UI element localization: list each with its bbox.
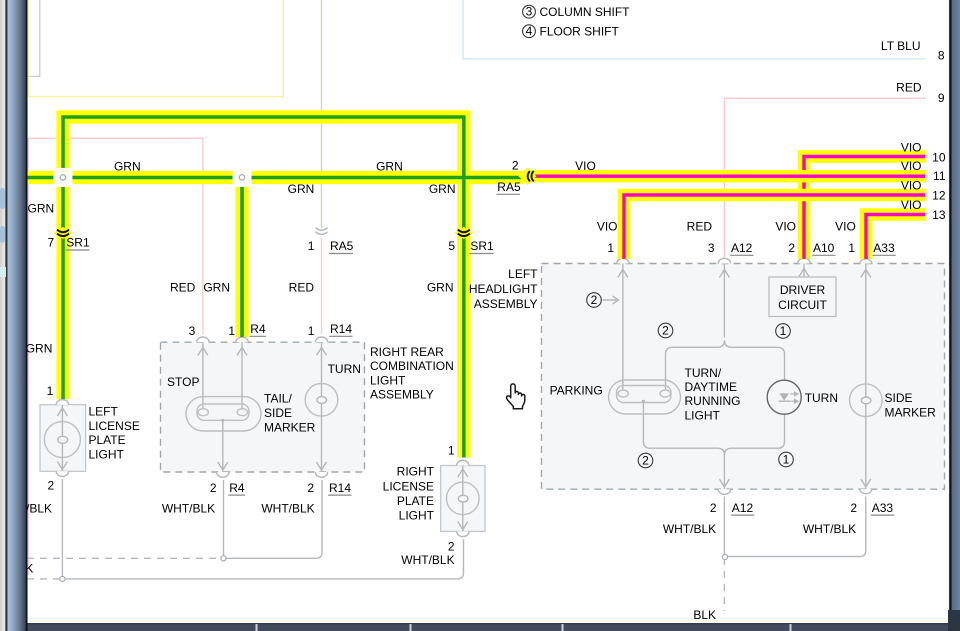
svg-text:2: 2: [210, 481, 217, 495]
pin bump headlight A33-1: [860, 259, 872, 264]
underline RA5 mid: [329, 253, 353, 255]
svg-text:A12: A12: [731, 241, 753, 255]
green wire GRN loop: [63, 117, 464, 458]
svg-text:TURN/: TURN/: [685, 366, 722, 380]
junction node circle 1: [60, 175, 65, 180]
svg-text:2: 2: [662, 323, 669, 337]
pin bump R4-1: [236, 337, 248, 342]
circled 2 bracket top left: [658, 323, 673, 338]
svg-text:GRN: GRN: [28, 201, 55, 215]
dashed box RIGHT REAR COMBINATION LIGHT ASSEMBLY: [161, 342, 365, 472]
ground junction node R4: [221, 556, 226, 561]
underline R4 top: [250, 335, 267, 337]
tail bulb left contact: [198, 409, 208, 416]
left license filament: [61, 422, 63, 457]
wire BLK junction to R14 pin2 lead: [224, 480, 323, 558]
svg-text:HEADLIGHT: HEADLIGHT: [469, 282, 538, 296]
wire parking bulb bottom: [642, 402, 644, 442]
status bar divider 1: [256, 624, 258, 631]
faint gray box top-left: [27, 0, 40, 76]
svg-text:GRN: GRN: [288, 182, 315, 196]
parking bulb right contact: [660, 390, 670, 397]
wire headlight pin2 A10 to driver circuit: [803, 264, 805, 278]
wire right license internal top: [462, 466, 464, 484]
wire headlight pin1 to parking bulb: [622, 264, 624, 391]
box RIGHT LICENSE PLATE LIGHT: [441, 466, 485, 532]
svg-text:WHT/BLK: WHT/BLK: [162, 502, 215, 516]
svg-text:3: 3: [189, 324, 196, 338]
svg-text:WHT/BLK: WHT/BLK: [401, 553, 454, 567]
svg-text:SR1: SR1: [66, 236, 90, 250]
svg-text:1: 1: [47, 384, 54, 398]
wire turn LED bottom: [784, 414, 786, 442]
connector SR1 pin7 highlight diamond: [54, 227, 73, 239]
svg-text:VIO: VIO: [901, 141, 922, 155]
ground junction node left license: [60, 576, 65, 581]
svg-text:LEFT: LEFT: [89, 405, 119, 419]
connector SR1 pin7: [57, 230, 69, 237]
arrow up R4 pin3: [198, 347, 208, 355]
wire BLK ground run left license to right license: [62, 479, 463, 579]
svg-text:A33: A33: [872, 501, 894, 515]
status bar divider 4: [790, 624, 792, 631]
left sidebar blue tab 1: [0, 188, 5, 209]
svg-text:RUNNING: RUNNING: [685, 394, 741, 408]
wire right license internal bottom: [462, 514, 464, 531]
turn rear bulb filament: [321, 384, 323, 416]
svg-text:LIGHT: LIGHT: [370, 373, 406, 387]
wire headlight pin3 A12 into box: [723, 264, 725, 338]
underline R4 bottom: [228, 494, 245, 496]
parking bulb inner element: [617, 386, 672, 403]
lamp LEFT LICENSE bulb: [44, 422, 80, 458]
svg-text:COMBINATION: COMBINATION: [370, 359, 454, 373]
svg-text:RA5: RA5: [497, 180, 521, 194]
arrow down R14 pin2: [317, 462, 327, 470]
underline SR1 right: [470, 253, 494, 255]
circled 2 parking callout: [587, 293, 602, 308]
lamp PARKING dual filament bulb: [609, 380, 681, 414]
svg-text:TURN: TURN: [328, 362, 361, 376]
svg-text:VIO: VIO: [597, 220, 618, 234]
svg-text:1: 1: [783, 452, 790, 466]
pin bump A12-2: [718, 489, 730, 494]
svg-text:10: 10: [932, 151, 946, 165]
arrow down A33 pin2: [861, 479, 871, 487]
pin bump R4-3: [197, 337, 209, 342]
HIGHLIGHTED_WIRES: [27, 117, 925, 458]
connector RA5 pin2: [528, 171, 534, 181]
circled 3 column shift: [523, 5, 536, 18]
svg-text:2: 2: [48, 479, 55, 493]
svg-text:COLUMN SHIFT: COLUMN SHIFT: [540, 5, 631, 19]
svg-text:ASSEMBLY: ASSEMBLY: [474, 297, 538, 311]
GRAY_WIRES: [27, 264, 871, 612]
status bar divider 3: [562, 624, 564, 631]
faint pink RED wire left box: [28, 138, 203, 575]
wire headlight A33 pin1 to side marker: [865, 264, 867, 385]
connector RA5 pin2 highlight diamond: [519, 168, 537, 186]
svg-text:13: 13: [932, 208, 946, 222]
svg-text:3: 3: [526, 4, 533, 18]
pin bump R4-2: [217, 472, 229, 477]
svg-text:1: 1: [848, 241, 855, 255]
magenta wire VIO A10 row10: [804, 157, 925, 260]
green wire GRN bus: [27, 176, 523, 180]
svg-text:A12: A12: [732, 501, 754, 515]
junction node circle 2: [239, 175, 244, 180]
arrow down right license pin2: [458, 522, 468, 530]
parking bulb center node: [642, 400, 645, 403]
svg-text:VIO: VIO: [901, 178, 922, 192]
svg-text:A33: A33: [873, 241, 895, 255]
pin bump R14-1: [315, 337, 327, 342]
svg-text:1: 1: [308, 324, 315, 338]
svg-text:4: 4: [526, 24, 533, 38]
svg-text:SR1: SR1: [470, 239, 494, 253]
faint lt-blue wire 8 LT BLU: [463, 0, 925, 59]
svg-text:PARKING: PARKING: [550, 384, 603, 398]
svg-text:WHT/BLK: WHT/BLK: [663, 522, 716, 536]
wire left license internal top: [61, 405, 63, 422]
faint pink wire 9 RED: [724, 98, 925, 259]
svg-text:LT BLU: LT BLU: [881, 39, 921, 53]
wire BLK dashed far left lower: [27, 578, 62, 580]
svg-text:2: 2: [710, 501, 717, 515]
svg-text:5: 5: [448, 239, 455, 253]
CONNECTOR_BUMPS: [56, 258, 872, 536]
svg-text:LIGHT: LIGHT: [89, 448, 125, 462]
svg-text:PLATE: PLATE: [89, 433, 126, 447]
svg-text:3: 3: [708, 241, 715, 255]
svg-text:LIGHT: LIGHT: [399, 509, 435, 523]
arrow down R4 pin2: [218, 462, 228, 470]
underline A10: [812, 254, 835, 256]
box LEFT LICENSE PLATE LIGHT: [40, 405, 86, 472]
pin bump R14-2: [315, 472, 327, 477]
parking bulb left contact: [618, 390, 628, 397]
svg-text:BLK: BLK: [693, 608, 716, 622]
pin bump A33-2: [860, 489, 872, 494]
svg-text:2: 2: [512, 159, 519, 173]
svg-text:1: 1: [607, 241, 614, 255]
magenta wire VIO row11: [531, 174, 925, 177]
tail bulb center node: [221, 419, 224, 422]
wire BLK dashed left segment: [27, 557, 224, 559]
bottom status bar: [0, 623, 960, 631]
svg-text:SIDE: SIDE: [885, 391, 913, 405]
svg-text:RED: RED: [289, 281, 315, 295]
junction node square 1: [53, 168, 72, 187]
right window sidebar: [948, 0, 960, 631]
box DRIVER CIRCUIT U1: [769, 277, 836, 317]
arrow up headlight pin2 A10: [799, 269, 809, 277]
underline A33 top: [873, 254, 896, 256]
dashed box LEFT HEADLIGHT ASSEMBLY: [542, 264, 945, 490]
svg-text:7: 7: [48, 236, 55, 250]
pin bump headlight A10-2: [798, 258, 810, 263]
svg-text:2: 2: [448, 540, 455, 554]
circled 1 bracket top right: [776, 324, 791, 339]
lamp TURN rear bulb: [305, 384, 338, 417]
svg-text:VIO: VIO: [775, 220, 796, 234]
svg-text:LEFT: LEFT: [508, 267, 538, 281]
underline R14 top: [329, 335, 352, 337]
pin bump right license 1: [457, 460, 469, 465]
left sidebar cyan smudge: [0, 267, 6, 277]
svg-text:RED: RED: [896, 81, 922, 95]
turn LED diode symbol: [779, 393, 789, 400]
arrow down A12 pin2: [719, 479, 729, 487]
svg-text:WHT/BLK: WHT/BLK: [803, 522, 856, 536]
side marker filament: [865, 384, 867, 417]
wire side marker bottom to A33 pin2: [865, 417, 867, 490]
svg-text:A10: A10: [813, 241, 835, 255]
wire A12 pin2 to BLK junction: [723, 497, 725, 557]
right sidebar bottom dark corner: [948, 610, 960, 631]
svg-text:GRN: GRN: [26, 341, 53, 355]
arrow up headlight pin3: [719, 270, 729, 278]
underline SR1 left: [66, 249, 90, 251]
svg-text:VIO: VIO: [835, 220, 856, 234]
svg-text:VIO: VIO: [575, 159, 596, 173]
svg-text:GRN: GRN: [427, 281, 454, 295]
svg-text:PLATE: PLATE: [397, 494, 434, 508]
status bar divider 2: [410, 624, 412, 631]
svg-text:2: 2: [642, 453, 649, 467]
arrow up R4 pin1: [237, 347, 247, 355]
CONNECTOR_GLYPHS: [54, 168, 537, 240]
svg-text:RED: RED: [687, 220, 713, 234]
pin bump right license 2: [457, 531, 469, 536]
tail bulb right contact: [237, 409, 247, 416]
svg-text:VIO: VIO: [901, 198, 922, 212]
underline A12 top: [730, 254, 753, 256]
svg-text:SIDE: SIDE: [264, 406, 292, 420]
svg-text:RIGHT: RIGHT: [397, 464, 435, 478]
faint bottom wire LT BLU continuation: [27, 617, 948, 619]
svg-text:8: 8: [938, 49, 945, 63]
yellow highlight band GRN bus: [27, 171, 523, 184]
svg-text:FLOOR SHIFT: FLOOR SHIFT: [540, 25, 620, 39]
svg-text:MARKER: MARKER: [264, 420, 316, 434]
faint green GRN wire into RA5 pin1: [321, 0, 323, 228]
svg-text:2: 2: [788, 241, 795, 255]
wire bracket to parking right contact: [665, 354, 667, 391]
wire bracket to turn LED: [784, 354, 786, 381]
svg-text:LICENSE: LICENSE: [383, 480, 434, 494]
svg-text:GRN: GRN: [429, 182, 456, 196]
pin bump headlight A12-3: [718, 258, 730, 263]
svg-text:ASSEMBLY: ASSEMBLY: [370, 388, 434, 402]
yellow highlight band VIO row10: [804, 157, 925, 260]
arrow up R14 pin1: [317, 347, 327, 355]
pin bump left license 2: [56, 471, 68, 476]
wire BLK dashed drop to bottom: [723, 558, 725, 611]
arrow up headlight pin1: [618, 270, 628, 278]
svg-text:RA5: RA5: [330, 239, 354, 253]
splice bracket bottom: [643, 441, 784, 455]
svg-text:R14: R14: [329, 481, 351, 495]
wire A33 pin2 to BLK junction: [724, 497, 865, 557]
left sidebar blue tab 2: [0, 226, 5, 243]
faint bottom wire YEL continuation: [27, 620, 948, 622]
COMPONENTS: [44, 380, 882, 515]
connector RA5 pin1: [316, 228, 328, 235]
lamp STOP / TAIL dual filament bulb outline: [186, 397, 261, 431]
svg-text:R4: R4: [229, 481, 245, 495]
svg-text:1: 1: [308, 239, 315, 253]
svg-text:R14: R14: [330, 322, 352, 336]
underline RA5 link: [497, 193, 521, 195]
yellow highlight band VIO row13: [866, 215, 925, 260]
left window sidebar: [0, 0, 28, 631]
svg-text:9: 9: [938, 91, 945, 105]
CIRCLED_NUMBERS: [523, 5, 794, 468]
magenta wire VIO A33 row13: [866, 215, 925, 260]
svg-text:STOP: STOP: [167, 375, 199, 389]
svg-text:1: 1: [228, 324, 235, 338]
svg-text:LICENSE: LICENSE: [89, 419, 140, 433]
faint pink RED wire RA5-1 to R14-1: [321, 238, 323, 334]
right license filament: [462, 483, 464, 514]
svg-text:12: 12: [932, 189, 946, 203]
svg-text:2: 2: [591, 293, 598, 307]
lamp RIGHT LICENSE bulb: [447, 482, 480, 515]
faint yellow wire box (unhighlighted YEL circuit): [29, 0, 284, 97]
yellow highlight band GRN R4 branch: [235, 178, 248, 338]
svg-text:1: 1: [780, 324, 787, 338]
cursor hand pointer: [507, 384, 525, 409]
svg-text:GRN: GRN: [376, 160, 403, 174]
svg-text:2: 2: [850, 501, 857, 515]
tail bulb inner element: [197, 404, 249, 420]
arrow right from circled2 to parking wire: [603, 296, 619, 304]
green wire GRN R4 branch: [240, 178, 244, 338]
svg-text:WHT/BLK: WHT/BLK: [261, 502, 314, 516]
underline A33 bottom: [871, 514, 894, 516]
pin bump left license 1: [56, 400, 68, 405]
splice bracket turn/daytime top: [666, 340, 785, 354]
magenta wire VIO row12: [624, 195, 925, 259]
lamp SIDE MARKER bulb: [850, 384, 883, 417]
pin bump headlight 1: [617, 258, 629, 263]
svg-text:DRIVER: DRIVER: [780, 283, 826, 297]
yellow highlight band VIO row12: [624, 195, 925, 259]
connector SR1 pin5: [458, 230, 470, 237]
wire R4 pin2 down to BLK junction: [223, 480, 225, 558]
svg-text:GRN: GRN: [114, 160, 141, 174]
svg-text:11: 11: [933, 169, 946, 183]
svg-text:MARKER: MARKER: [885, 405, 937, 419]
yellow highlight band GRN loop: [63, 117, 464, 458]
lamp TURN LED indicator: [767, 380, 801, 414]
wire stop/tail bulb bottom to R4 pin2: [222, 420, 224, 472]
svg-text:R4: R4: [250, 322, 266, 336]
arrow up headlight pin1 A33: [861, 270, 871, 278]
ground junction node A12: [722, 554, 727, 559]
underline R14 bottom: [328, 494, 351, 496]
connector SR1 pin5 highlight diamond: [454, 227, 473, 239]
arrow up right license pin1: [458, 469, 468, 477]
svg-text:RIGHT REAR: RIGHT REAR: [370, 345, 444, 359]
wire R14 pin1 to turn bulb: [321, 342, 323, 384]
svg-text:DAYTIME: DAYTIME: [685, 380, 737, 394]
arrow up left license pin1: [57, 408, 67, 416]
junction node square 2: [233, 168, 252, 187]
svg-text:CIRCUIT: CIRCUIT: [778, 298, 827, 312]
svg-text:TURN: TURN: [805, 391, 838, 405]
arrow down left license pin2: [57, 462, 67, 470]
wire R4 pin1 to stop bulb right contact: [241, 342, 243, 409]
circled 2 bracket bottom left: [638, 453, 653, 468]
svg-text:LIGHT: LIGHT: [685, 408, 721, 422]
wire left license internal bottom: [61, 457, 63, 471]
svg-text:1: 1: [448, 443, 455, 457]
svg-text:VIO: VIO: [901, 159, 922, 173]
svg-text:2: 2: [307, 481, 314, 495]
circled 4 floor shift: [523, 25, 536, 38]
circled 1 bracket bottom right: [779, 452, 794, 467]
wire A12 pin2 exit: [723, 452, 725, 489]
wire turn bulb to R14 pin2: [321, 416, 323, 472]
yellow highlight band VIO row11: [531, 170, 925, 182]
svg-text:RED: RED: [170, 281, 196, 295]
svg-text:GRN: GRN: [203, 281, 230, 295]
underline A12 bottom: [731, 514, 754, 516]
svg-text:TAIL/: TAIL/: [264, 392, 292, 406]
wire R4 pin3 to stop bulb: [202, 342, 204, 409]
